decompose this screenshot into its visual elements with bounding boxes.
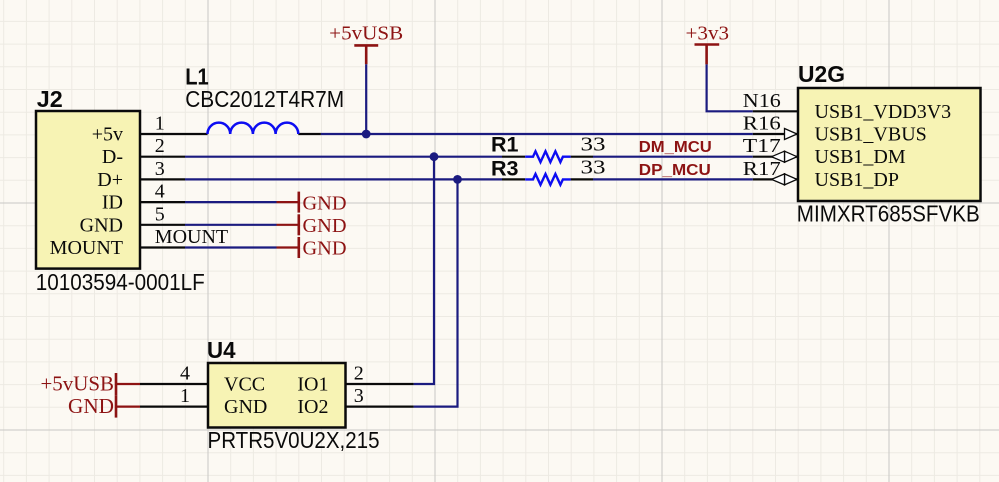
svg-text:33: 33 bbox=[581, 156, 606, 178]
J2 pin 4 (ID) bbox=[102, 181, 185, 214]
wire to GND port 3 bbox=[185, 246, 277, 248]
svg-text:USB1_VBUS: USB1_VBUS bbox=[815, 124, 927, 146]
IC U2G body bbox=[798, 88, 981, 201]
svg-text:VCC: VCC bbox=[224, 374, 265, 396]
svg-text:GND: GND bbox=[68, 394, 114, 418]
IC U4 body bbox=[208, 363, 346, 428]
svg-text:J2: J2 bbox=[37, 86, 63, 112]
wire +3v3 to N16 bbox=[707, 64, 753, 111]
power port GND 2 bbox=[277, 214, 347, 237]
svg-text:USB1_VDD3V3: USB1_VDD3V3 bbox=[815, 101, 952, 123]
designator R3 bbox=[491, 157, 519, 181]
U2G pin T17 (USB1_DM) bbox=[743, 135, 906, 168]
wire D+ vertical to U4 IO2 bbox=[414, 179, 458, 406]
svg-text:+5v: +5v bbox=[92, 124, 123, 146]
svg-text:1: 1 bbox=[155, 113, 165, 135]
svg-text:PRTR5V0U2X,215: PRTR5V0U2X,215 bbox=[208, 427, 380, 453]
svg-text:10103594-0001LF: 10103594-0001LF bbox=[36, 269, 205, 295]
U2G pin R16 (USB1_VBUS) bbox=[743, 113, 927, 146]
svg-text:R1: R1 bbox=[491, 133, 519, 157]
svg-text:D+: D+ bbox=[97, 169, 123, 191]
svg-text:1: 1 bbox=[180, 385, 190, 407]
svg-text:3: 3 bbox=[155, 158, 165, 180]
svg-text:GND: GND bbox=[303, 238, 347, 260]
resistor R1 bbox=[502, 151, 593, 162]
part number PRTR5V0U2X,215 bbox=[208, 427, 380, 453]
designator R1 bbox=[491, 133, 519, 157]
wire D- vertical to U4 IO1 bbox=[414, 157, 434, 384]
J2 pin 1 (+5v) bbox=[92, 113, 185, 146]
designator U2G bbox=[798, 61, 845, 87]
power port +5vUSB (U4) bbox=[41, 371, 141, 395]
svg-text:R16: R16 bbox=[743, 113, 781, 135]
svg-text:4: 4 bbox=[180, 363, 190, 385]
svg-text:GND: GND bbox=[224, 396, 267, 418]
svg-text:GND: GND bbox=[80, 214, 123, 236]
svg-text:3: 3 bbox=[354, 385, 364, 407]
svg-text:MIMXRT685SFVKB: MIMXRT685SFVKB bbox=[797, 201, 980, 227]
svg-text:ID: ID bbox=[102, 192, 123, 214]
net label DP_MCU bbox=[639, 162, 711, 179]
U2G pin N16 (USB1_VDD3V3) bbox=[743, 90, 951, 123]
designator J2 bbox=[37, 86, 63, 112]
power port GND 1 bbox=[277, 192, 347, 215]
value 33 (R3) bbox=[581, 156, 606, 178]
junction +5vUSB/VBUS bbox=[362, 130, 371, 139]
svg-text:R3: R3 bbox=[491, 157, 519, 181]
svg-text:4: 4 bbox=[155, 181, 165, 203]
resistor R3 bbox=[502, 174, 593, 185]
wire to GND port 1 bbox=[185, 201, 277, 203]
J2 pin MOUNT (MOUNT) bbox=[50, 226, 228, 259]
wire to GND port 2 bbox=[185, 224, 277, 226]
svg-text:DP_MCU: DP_MCU bbox=[639, 162, 711, 179]
wire DP_MCU net bbox=[593, 178, 753, 180]
svg-text:+5vUSB: +5vUSB bbox=[41, 371, 115, 395]
svg-text:CBC2012T4R7M: CBC2012T4R7M bbox=[185, 86, 344, 112]
svg-text:IO2: IO2 bbox=[297, 396, 328, 418]
svg-text:USB1_DM: USB1_DM bbox=[815, 146, 906, 168]
value 33 (R1) bbox=[581, 134, 606, 156]
power port +3v3 bbox=[686, 23, 730, 65]
svg-text:USB1_DP: USB1_DP bbox=[815, 169, 899, 191]
U2G pin R17 (USB1_DP) bbox=[743, 158, 899, 191]
svg-text:U4: U4 bbox=[207, 337, 236, 363]
U4 pin 4 (VCC) bbox=[140, 363, 265, 396]
wire +5vUSB vertical bbox=[365, 64, 367, 134]
net label DM_MCU bbox=[639, 139, 712, 156]
svg-text:+3v3: +3v3 bbox=[686, 23, 730, 45]
svg-text:GND: GND bbox=[303, 215, 347, 237]
J2 pin 2 (D-) bbox=[102, 135, 185, 168]
connector J2 body bbox=[36, 111, 140, 269]
svg-text:MOUNT: MOUNT bbox=[155, 226, 228, 248]
wire DM_MCU net bbox=[593, 156, 753, 158]
svg-text:+5vUSB: +5vUSB bbox=[329, 23, 403, 45]
part number 10103594-0001LF bbox=[36, 269, 205, 295]
wire +5v net (L1 to U2G VBUS) bbox=[321, 133, 753, 135]
svg-text:MOUNT: MOUNT bbox=[50, 237, 123, 259]
wire D+ (J2.3 to R3) bbox=[185, 178, 502, 180]
svg-text:IO1: IO1 bbox=[297, 374, 328, 396]
power port GND 3 bbox=[277, 237, 347, 260]
inductor L1 bbox=[185, 123, 321, 134]
svg-text:5: 5 bbox=[155, 203, 165, 225]
U4 pin 2 (IO1) bbox=[297, 363, 413, 396]
svg-text:U2G: U2G bbox=[798, 61, 845, 87]
part number MIMXRT685SFVKB bbox=[797, 201, 980, 227]
wire D- (J2.2 to R1) bbox=[185, 156, 502, 158]
svg-text:33: 33 bbox=[581, 134, 606, 156]
svg-text:2: 2 bbox=[354, 363, 364, 385]
svg-text:GND: GND bbox=[303, 192, 347, 214]
junction D+ bbox=[453, 175, 462, 184]
power port GND (U4) bbox=[68, 394, 140, 418]
value CBC2012T4R7M bbox=[185, 86, 344, 112]
U4 pin 3 (IO2) bbox=[297, 385, 413, 418]
U4 pin 1 (GND) bbox=[140, 385, 267, 418]
J2 pin 5 (GND) bbox=[80, 203, 185, 236]
J2 pin 3 (D+) bbox=[97, 158, 185, 191]
svg-text:R17: R17 bbox=[743, 158, 781, 180]
svg-text:2: 2 bbox=[155, 135, 165, 157]
junction D- bbox=[430, 152, 439, 161]
svg-text:D-: D- bbox=[102, 146, 123, 168]
svg-text:N16: N16 bbox=[743, 90, 781, 112]
svg-text:DM_MCU: DM_MCU bbox=[639, 139, 712, 156]
power port +5vUSB bbox=[329, 23, 403, 65]
designator U4 bbox=[207, 337, 236, 363]
svg-text:T17: T17 bbox=[743, 135, 781, 157]
designator L1 bbox=[185, 63, 209, 89]
